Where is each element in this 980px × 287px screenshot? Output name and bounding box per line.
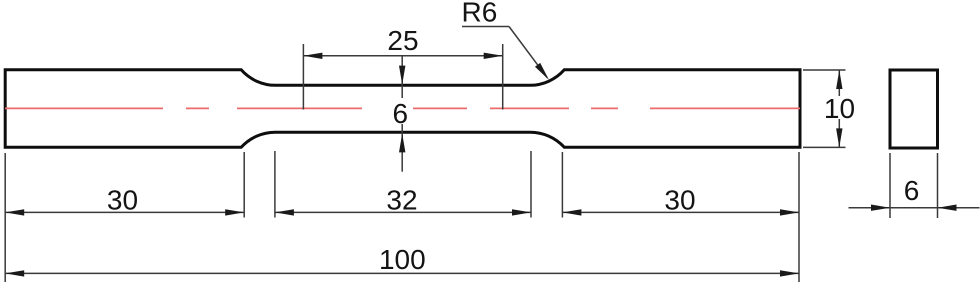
svg-text:R6: R6 — [462, 0, 498, 28]
arrow 30L right — [225, 209, 244, 215]
dim line 30 left — [5, 211, 244, 213]
dim line 6 vertical upper — [401, 56, 403, 98]
centerline (red dash-dot axis) — [5, 107, 800, 109]
dimension texts — [107, 0, 919, 275]
svg-text:30: 30 — [664, 185, 695, 216]
arrow 100 left — [5, 270, 24, 276]
svg-text:10: 10 — [824, 93, 855, 124]
arrow 30R left — [562, 209, 581, 215]
ext line side right — [937, 153, 939, 218]
arrow 30L left — [5, 209, 24, 215]
dim line 6 vertical lower — [401, 124, 403, 172]
arrow 100 right — [780, 270, 799, 276]
ext line left edge — [4, 153, 6, 282]
arrow 6side left-pointing — [938, 205, 957, 211]
arrow 30R right — [780, 209, 799, 215]
arrow 6side right-pointing — [871, 205, 890, 211]
ext line right edge — [798, 152, 800, 282]
leader R6 slant — [509, 27, 547, 78]
dim line 30 right — [562, 211, 799, 213]
dim line 100 — [5, 272, 799, 274]
arrow 6 up — [399, 133, 405, 152]
ext line narrow right tangent — [530, 151, 532, 218]
arrow 25 right — [484, 53, 503, 59]
svg-text:25: 25 — [387, 25, 418, 56]
ext line side left — [889, 153, 891, 218]
ext line narrow left tangent — [274, 151, 276, 218]
svg-text:32: 32 — [386, 185, 417, 216]
leader R6 horizontal — [462, 26, 509, 28]
arrow 25 left — [303, 53, 322, 59]
ext line left fillet start — [243, 152, 245, 218]
dim line 6 side right tail — [938, 207, 980, 209]
svg-text:6: 6 — [393, 98, 409, 129]
dim line 32 — [275, 211, 531, 213]
dim line 6 side left tail — [849, 207, 891, 209]
arrow 10 up — [836, 70, 842, 89]
specimen outline (dog-bone front view) — [5, 70, 800, 148]
ext line gauge left — [302, 44, 304, 110]
arrow R6 leader — [535, 63, 549, 80]
arrowheads — [5, 53, 956, 277]
svg-text:100: 100 — [379, 244, 426, 275]
svg-text:6: 6 — [904, 175, 920, 206]
arrow 32 right — [512, 209, 531, 215]
arrow 6 down — [399, 66, 405, 85]
svg-text:30: 30 — [107, 185, 138, 216]
ext line 10 top — [803, 69, 846, 71]
ext line gauge right — [502, 44, 504, 110]
ext line right fillet end — [561, 152, 563, 218]
end view rectangle (side section) — [890, 70, 938, 148]
dim line 10 upper — [838, 70, 840, 96]
arrow 10 down — [836, 128, 842, 147]
extension lines (thin) — [5, 44, 937, 282]
arrow 32 left — [275, 209, 294, 215]
dim line 10 lower — [838, 119, 840, 147]
ext line 10 bottom — [803, 146, 846, 148]
dim line 25 — [303, 55, 502, 57]
dim line 6 side middle — [890, 207, 938, 209]
